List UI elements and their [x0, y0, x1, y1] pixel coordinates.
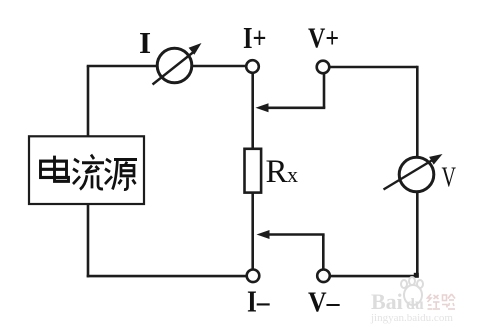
wire: current source bottom to bottom rail	[87, 204, 90, 277]
current source label 源 (yuan)	[105, 159, 137, 190]
wire: top sense arrow horizontal (V+ to Rx node)	[266, 107, 325, 110]
watermark: Baidu jingyan logo	[370, 277, 455, 324]
svg-text:V+: V+	[308, 23, 339, 55]
ammeter A1 circle	[157, 48, 192, 83]
wire: current source top to top rail	[87, 66, 90, 137]
current source label 电 (dian)	[41, 156, 69, 182]
current source label 流 (liu)	[73, 155, 104, 190]
svg-text:x: x	[287, 162, 298, 187]
terminal V+	[317, 61, 330, 74]
terminal V-	[317, 270, 330, 283]
svg-text:jingyan.baidu.com: jingyan.baidu.com	[370, 312, 453, 324]
wire: right rail upper (corner down to voltmeter)	[416, 66, 419, 158]
ammeter A1 needle	[153, 50, 197, 85]
svg-text:Bai: Bai	[371, 289, 403, 314]
wire: ammeter to I+ terminal	[192, 65, 247, 68]
wire: bottom rail to I- terminal	[87, 275, 247, 278]
junction: bottom-right corner	[414, 273, 419, 278]
arrowhead of bottom sense arrow (points left into Rx node)	[257, 230, 270, 239]
voltmeter V1 needle arrowhead	[429, 154, 442, 165]
wire: V+ stub down to top sense arrow	[323, 74, 326, 108]
svg-text:I+: I+	[243, 20, 267, 55]
arrowhead of top sense arrow (points left into Rx node)	[256, 103, 269, 112]
wire: resistor Rx bottom to I- terminal	[251, 192, 254, 270]
current source box	[29, 136, 144, 204]
svg-text:I–: I–	[247, 284, 270, 319]
wire: V+ to top-right corner	[329, 66, 417, 69]
svg-text:V: V	[442, 162, 457, 194]
svg-text:R: R	[266, 154, 288, 190]
wire: right rail lower (voltmeter to bottom-right corner)	[416, 191, 419, 277]
voltmeter V1 needle	[384, 159, 436, 190]
wire: V- stub up to bottom sense arrow	[322, 235, 325, 270]
terminal I+	[246, 60, 259, 73]
wire: I+ terminal down to resistor Rx top	[251, 74, 254, 151]
voltmeter V1 circle	[399, 157, 434, 192]
resistor Rx body	[245, 149, 262, 193]
wire: bottom-right corner to V- terminal	[329, 275, 419, 278]
ammeter A1 needle arrowhead	[189, 43, 202, 55]
wire: bottom sense arrow horizontal (V- to Rx node)	[267, 233, 325, 236]
svg-text:V–: V–	[308, 287, 340, 319]
wire: top rail left segment to ammeter	[87, 65, 158, 68]
terminal I-	[247, 270, 260, 283]
svg-text:I: I	[139, 25, 151, 60]
